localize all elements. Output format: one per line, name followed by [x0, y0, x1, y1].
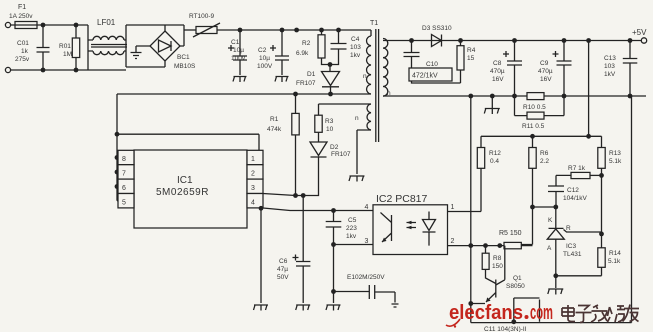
terminal AC input L: [5, 22, 10, 27]
node sense R6: [530, 134, 535, 139]
pin 2 IC2: [451, 238, 455, 245]
svg-text:MB10S: MB10S: [174, 63, 196, 70]
pin 8 IC1: [118, 150, 134, 164]
wire IC1 pin3 line: [263, 194, 303, 196]
svg-text:10µ: 10µ: [233, 47, 244, 54]
svg-text:FR107: FR107: [331, 151, 351, 158]
node bus C8: [512, 94, 517, 99]
watermark elecfans.com: [446, 302, 553, 328]
svg-text:C01: C01: [17, 40, 29, 47]
svg-text:D1: D1: [307, 71, 316, 78]
svg-text:C10: C10: [426, 61, 438, 68]
svg-text:IC3: IC3: [566, 243, 577, 250]
thermistor RT100-9: [184, 13, 220, 37]
node rail x296: [294, 28, 299, 33]
svg-text:R5 150: R5 150: [499, 230, 522, 237]
svg-text:TL431: TL431: [563, 251, 582, 258]
transformer T1 primary winding: [363, 36, 371, 94]
wire K link: [521, 207, 556, 245]
svg-text:16V: 16V: [540, 76, 552, 83]
capacitor C12 104/1kV: [548, 186, 588, 207]
svg-text:S8050: S8050: [506, 283, 525, 290]
node snubber junction: [328, 62, 333, 67]
node C9 rail: [562, 38, 567, 43]
svg-text:5: 5: [122, 199, 126, 206]
watermark chinese char fa: [591, 305, 608, 322]
node fuse C01: [41, 23, 46, 28]
svg-text:R13: R13: [609, 150, 621, 157]
node pin8 bus: [115, 155, 120, 160]
node C5 bottom opto pin3: [331, 242, 373, 291]
svg-text:IC2 PC817: IC2 PC817: [376, 193, 428, 205]
watermark chinese char zi: [576, 306, 592, 323]
svg-text:100v: 100v: [231, 55, 246, 62]
svg-text:elecfans: elecfans: [449, 302, 523, 324]
LED inside IC2: [407, 212, 436, 246]
svg-text:R1: R1: [270, 116, 279, 123]
node gnd drop pin4: [259, 206, 264, 303]
node E102M tap: [331, 289, 336, 303]
svg-text:C11 104(3N)-II: C11 104(3N)-II: [484, 326, 527, 332]
svg-text:275v: 275v: [15, 56, 30, 63]
resistor R01 1M: [59, 25, 80, 70]
svg-text:R12: R12: [489, 150, 501, 157]
resistor R7 1k: [556, 165, 602, 186]
resistor R2 6.9k: [296, 30, 330, 65]
capacitor C1 10u 100v: [228, 30, 247, 75]
node C4 rail: [336, 28, 341, 33]
node bus C9: [562, 94, 567, 99]
svg-text:Q1: Q1: [513, 275, 522, 282]
earth at bridge AC side: [131, 46, 151, 59]
capacitor C13 103 1kV: [604, 41, 637, 97]
svg-text:103: 103: [604, 63, 615, 70]
resistor R11 0.5: [515, 96, 565, 130]
transformer T1 core: [370, 20, 379, 142]
capacitor E102M/250V: [334, 274, 399, 307]
wire bottom AC: [11, 69, 88, 71]
svg-text:1kv: 1kv: [346, 233, 357, 240]
node R2 rail: [319, 28, 324, 33]
svg-text:150: 150: [492, 263, 503, 270]
capacitor C8 470u 16V: [490, 41, 522, 97]
svg-text:4: 4: [365, 204, 369, 211]
wire secondary 0V bus: [383, 95, 646, 97]
svg-text:K: K: [548, 217, 553, 224]
resistor R1 474k: [267, 92, 299, 196]
node Q1 collector: [497, 243, 502, 248]
wire IC1 pin1 drain link: [117, 134, 259, 150]
svg-text:RT100-9: RT100-9: [189, 13, 215, 20]
resistor R3 10: [315, 104, 334, 142]
watermark chinese char dian: [562, 305, 575, 322]
svg-text:1A 250v: 1A 250v: [9, 13, 33, 20]
svg-text:5M02659R: 5M02659R: [156, 187, 209, 198]
svg-text:47µ: 47µ: [277, 266, 288, 273]
svg-text:472/1kV: 472/1kV: [412, 73, 438, 80]
svg-text:3: 3: [251, 185, 255, 192]
node R8 top: [483, 243, 488, 248]
pin 6 IC1: [118, 179, 134, 193]
svg-text:10µ: 10µ: [259, 55, 270, 62]
svg-text:50V: 50V: [277, 274, 289, 281]
resistor R13 5.1k: [598, 148, 622, 176]
watermark chinese char you: [623, 305, 640, 322]
resistor R12 0.4: [448, 148, 502, 212]
svg-text:1kv: 1kv: [350, 52, 361, 59]
wire opto pin2 R5 line: [448, 245, 505, 247]
svg-text:R: R: [566, 225, 571, 232]
node D1 drain bus: [328, 92, 333, 97]
node pin1 link bus: [115, 132, 120, 137]
node bottom C01: [41, 68, 46, 73]
wire IC1 pin4 line: [263, 208, 373, 211]
diode D2 FR107: [303, 142, 351, 196]
svg-text:R3: R3: [325, 118, 334, 125]
resistor R5 150: [499, 230, 533, 249]
capacitor C4 103 1kv: [330, 30, 361, 65]
svg-text:470µ: 470µ: [490, 68, 505, 75]
svg-text:4: 4: [251, 199, 255, 206]
svg-text:BC1: BC1: [177, 54, 190, 61]
svg-text:1M: 1M: [63, 51, 72, 58]
node TL431 anode R14: [553, 273, 558, 288]
pin 3 IC2: [365, 238, 369, 245]
terminal AC input N: [5, 67, 10, 72]
ground auxiliary winding: [349, 176, 365, 182]
node C8 rail: [512, 38, 517, 43]
node pin7 bus: [115, 170, 120, 175]
IC U1 IC1 5M02659R: [134, 150, 247, 228]
svg-text:R7 1k: R7 1k: [568, 165, 586, 172]
fuse F1 1A 250v: [9, 4, 40, 29]
svg-text:8: 8: [122, 156, 126, 163]
svg-text:T1: T1: [370, 20, 378, 27]
wire drain bus: [117, 93, 371, 95]
svg-text:7: 7: [122, 171, 126, 178]
svg-text:5.1k: 5.1k: [608, 258, 621, 265]
node emitter feedback vertical: [468, 301, 473, 306]
node C6 pin3: [301, 193, 306, 198]
capacitor C2 10u 100V: [257, 30, 289, 75]
node R1 pin3: [293, 193, 298, 198]
capacitor C9 470u 16V: [538, 41, 572, 97]
svg-text:15: 15: [467, 55, 475, 62]
svg-text:R2: R2: [302, 40, 311, 47]
resistor R8 150: [482, 246, 503, 284]
node bottom R01: [74, 68, 79, 73]
node sense join: [586, 134, 591, 139]
ground 0V bus: [484, 96, 500, 114]
svg-text:R14: R14: [609, 250, 621, 257]
svg-text:C2: C2: [258, 47, 267, 54]
inductor LF01 common-mode choke: [88, 18, 127, 70]
bridge rectifier BC1 MB10S: [150, 25, 196, 70]
ground C5 line: [326, 305, 341, 311]
ground TL431: [548, 289, 564, 295]
svg-text:R01: R01: [59, 43, 71, 50]
svg-text:6.9k: 6.9k: [296, 50, 309, 57]
node bus C13: [628, 94, 633, 99]
node R13 R7: [599, 173, 604, 178]
node R6 K link left: [530, 205, 535, 210]
svg-text:C9: C9: [540, 60, 549, 67]
resistor R14 5.1k: [556, 248, 622, 276]
svg-text:F1: F1: [18, 4, 26, 11]
ground C6: [296, 305, 311, 311]
node C13 rail: [628, 38, 633, 43]
node bus gnd: [490, 94, 495, 99]
svg-text:470µ: 470µ: [538, 68, 553, 75]
resistor R10 0.5: [523, 93, 546, 111]
wire to bridge: [126, 25, 184, 46]
svg-text:10: 10: [326, 126, 334, 133]
svg-text:2: 2: [251, 171, 255, 178]
node R4 rail: [458, 38, 463, 43]
transformer T1 auxiliary winding: [319, 104, 372, 174]
svg-text:FR107: FR107: [296, 80, 316, 87]
svg-text:A: A: [547, 245, 552, 252]
node C1 rail: [238, 28, 243, 33]
node pin6 bus: [115, 184, 120, 189]
pin 1 IC1: [247, 150, 263, 164]
node C2 rail: [280, 28, 285, 33]
svg-text:C13: C13: [604, 55, 616, 62]
optocoupler IC2 PC817: [373, 193, 448, 255]
ground C2: [275, 77, 289, 83]
svg-text:n: n: [363, 73, 367, 80]
wire bottom secondary rail: [471, 96, 632, 323]
svg-text:n: n: [355, 115, 359, 122]
svg-text:R8: R8: [493, 255, 502, 262]
svg-text:D3 SS310: D3 SS310: [422, 25, 452, 32]
svg-text:C6: C6: [279, 258, 288, 265]
svg-text:1kV: 1kV: [604, 71, 616, 78]
wire secondary +5V rail: [383, 40, 641, 42]
capacitor C10 472/1kV snubber: [404, 41, 461, 84]
svg-text:1: 1: [451, 204, 455, 211]
transistor Q1 S8050: [471, 246, 525, 304]
svg-text:103: 103: [350, 44, 361, 51]
svg-text:2.2: 2.2: [540, 158, 549, 165]
svg-text:1: 1: [251, 156, 255, 163]
wire feedback vertical: [470, 96, 472, 323]
wire primary DC rail: [217, 30, 371, 36]
transformer T1 secondary winding: [383, 39, 391, 98]
node snubber C10: [409, 38, 414, 43]
wire IC1 left bus: [117, 94, 119, 201]
svg-text:com: com: [530, 302, 553, 324]
svg-text:2: 2: [451, 238, 455, 245]
node TL431 K: [553, 205, 558, 210]
svg-text:+5V: +5V: [632, 28, 647, 37]
diode D1 FR107: [296, 65, 340, 95]
capacitor C11 104: [484, 298, 540, 332]
wire top AC: [40, 24, 88, 26]
svg-text:474k: 474k: [267, 126, 282, 133]
node divider ref: [599, 175, 604, 247]
resistor R4 15: [457, 41, 476, 84]
svg-text:R10 0.5: R10 0.5: [523, 104, 546, 111]
capacitor C01 1k 275v: [15, 25, 50, 70]
pin 4 IC1: [247, 194, 263, 208]
pin 3 IC1: [247, 179, 263, 193]
transistor inside IC2: [381, 213, 392, 243]
pin 7 IC1: [118, 165, 134, 179]
node R01 top: [74, 23, 79, 28]
node pin2 vertical: [468, 243, 473, 248]
svg-text:C1: C1: [231, 39, 240, 46]
svg-text:C12: C12: [567, 187, 579, 194]
watermark chinese char shao: [608, 306, 626, 322]
svg-text:6: 6: [122, 185, 126, 192]
svg-text:R6: R6: [540, 150, 549, 157]
svg-text:R11 0.5: R11 0.5: [522, 123, 545, 130]
pin 2 IC1: [247, 165, 263, 179]
diode D3 SS310: [422, 25, 452, 47]
svg-text:1k: 1k: [21, 48, 29, 55]
wire sense line: [481, 41, 602, 148]
svg-text:223: 223: [346, 225, 357, 232]
pin 1 IC2: [451, 204, 455, 211]
svg-text:100V: 100V: [257, 63, 273, 70]
ground C1: [233, 77, 247, 83]
ground pin4 drop: [254, 305, 269, 311]
svg-text:C8: C8: [493, 60, 502, 67]
node C5 top: [331, 208, 336, 213]
svg-text:IC1: IC1: [177, 175, 193, 186]
capacitor C6 47u 50V: [277, 196, 310, 304]
capacitor C5 223 1kv: [326, 211, 358, 245]
svg-text:E102M/250V: E102M/250V: [347, 274, 385, 281]
svg-text:LF01: LF01: [97, 18, 116, 27]
shunt regulator IC3 TL431: [547, 207, 602, 276]
resistor R6 2.2: [529, 136, 550, 207]
svg-text:R4: R4: [467, 47, 476, 54]
svg-text:5.1k: 5.1k: [609, 158, 622, 165]
svg-text:C5: C5: [348, 217, 357, 224]
node sense rail: [586, 38, 591, 43]
wire bridge bottom: [126, 61, 165, 67]
svg-text:D2: D2: [330, 144, 339, 151]
svg-text:C4: C4: [351, 36, 360, 43]
svg-text:0.4: 0.4: [490, 158, 499, 165]
pin 4 IC2: [365, 204, 369, 211]
node bus feedback drop: [468, 94, 473, 99]
terminal +5V output: [632, 28, 647, 43]
pin 5 IC1: [118, 194, 134, 208]
svg-text:104/1kV: 104/1kV: [563, 195, 588, 202]
svg-text:3: 3: [365, 238, 369, 245]
svg-text:16V: 16V: [492, 76, 504, 83]
